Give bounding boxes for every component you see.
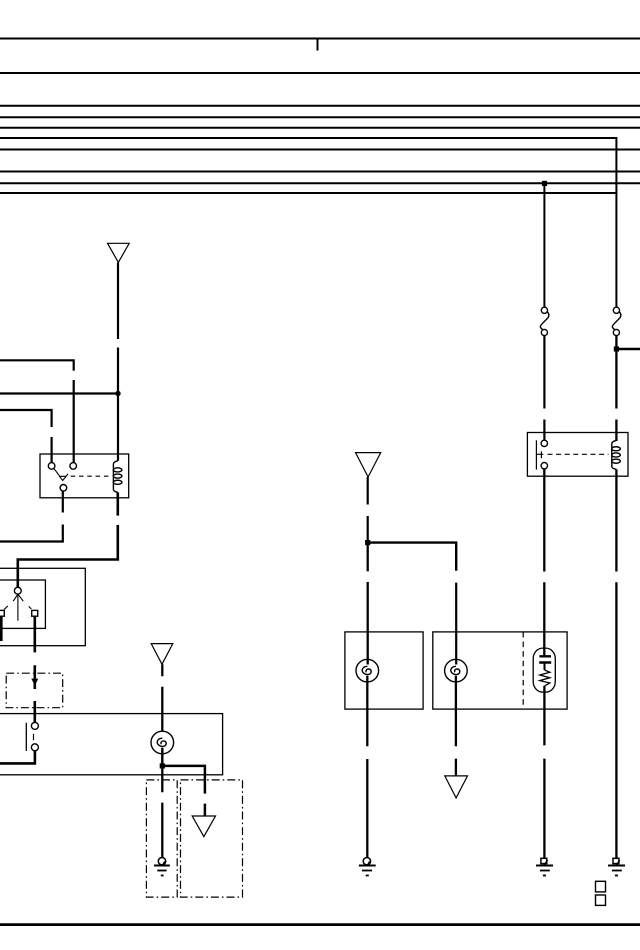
connector dashed box <box>6 673 63 708</box>
dash-dot box right <box>181 780 243 897</box>
switch S1 left contact <box>0 610 4 616</box>
connector triangle T4 <box>445 776 468 798</box>
wire junction down to bulb L2 <box>367 545 369 665</box>
wire T2 down to bulb L1 <box>161 664 163 731</box>
junction node below bulb L1 <box>160 763 165 768</box>
ground G3 <box>536 858 553 875</box>
wire feed C from left edge <box>0 410 52 463</box>
wire from bus 9 junction down to fuse F1 <box>543 183 545 307</box>
switch S2 terminal bottom <box>31 744 38 751</box>
relay U2 terminal bottom <box>541 463 547 469</box>
wire bus 2 <box>0 72 640 74</box>
wire fuse F1 to relay box <box>543 336 545 441</box>
wire junction to connector T5 <box>162 766 205 816</box>
wire bus 4 <box>0 116 640 118</box>
wire bus 1 <box>0 38 640 40</box>
heater element resistor zigzag <box>540 670 550 686</box>
wire bus 3 <box>0 105 640 107</box>
wire bulb L2 to ground <box>366 676 368 858</box>
connector arrow on wire <box>31 679 38 686</box>
wire bulb L3 down to connector T4 <box>455 676 457 776</box>
ground G1 <box>154 858 170 876</box>
wire S2 bottom out left <box>0 751 35 764</box>
dashed separator in box L3 <box>522 632 524 709</box>
lamp box L3 with element <box>433 632 567 709</box>
switch S1 terminal <box>14 587 21 594</box>
wire relay U2 coil down <box>615 469 617 857</box>
switch assembly inner box <box>0 580 45 628</box>
page reference square 2 <box>596 895 606 905</box>
switch S2 bar <box>25 723 27 751</box>
relay U2 coil <box>612 440 621 469</box>
relay U1 coil <box>113 461 122 493</box>
wire bus 7 <box>0 149 640 151</box>
wire T3 down to junction <box>367 477 369 543</box>
wire bus 9 <box>0 182 640 184</box>
switch S2 dash between terminals <box>33 734 35 740</box>
wire bus 5 <box>0 127 640 129</box>
wire branch right lower <box>455 583 457 665</box>
wire bulb L1 to junction <box>161 748 163 766</box>
relay U1 switch arm <box>54 468 68 480</box>
wire relay U1 common down and left <box>0 491 63 542</box>
wire feed A from left edge <box>0 360 74 462</box>
bulb L1 <box>151 731 174 754</box>
fuse F1 <box>540 307 549 335</box>
wire T1 down to relay coil <box>117 262 119 460</box>
wire stub from left contact <box>0 616 3 641</box>
relay U1 terminal 2 <box>70 463 77 470</box>
relay U2 contact bar <box>536 440 543 469</box>
fuse F2 <box>612 307 621 335</box>
junction node middle <box>365 540 370 545</box>
relay U2 terminal top <box>541 440 547 446</box>
connector triangle T1 (top left) <box>108 243 130 262</box>
lamp box L2 <box>345 632 423 709</box>
heater element stem <box>544 663 546 671</box>
connector triangle T5 <box>192 816 215 837</box>
junction node on coil wire <box>115 391 120 396</box>
switch S2 terminal top <box>31 722 38 729</box>
wire bus 10 <box>0 192 617 194</box>
relay U1 actuation dashed line <box>71 475 112 477</box>
wire relay U1 coil to switch S1 <box>18 492 118 587</box>
junction node on F2 wire <box>614 346 619 351</box>
ground G4 <box>608 858 625 875</box>
relay U1 box <box>40 454 129 498</box>
wire bus 6 with corner down to fuse F2 <box>0 138 616 307</box>
switch S1 pole and arms <box>13 594 23 621</box>
heater element plates <box>539 656 551 662</box>
dash-dot box left <box>146 780 177 897</box>
heater element capsule <box>533 648 555 692</box>
relay U2 box <box>527 433 628 477</box>
page reference square 1 <box>596 881 606 892</box>
switch S1 right contact <box>32 610 38 616</box>
node tick on bus 1 <box>317 39 319 51</box>
junction node on bus 9 <box>542 181 547 186</box>
ground G2 <box>359 858 376 876</box>
wire fuse F2 to relay box <box>615 336 617 441</box>
bulb L3 <box>445 659 468 682</box>
wire bus 8 <box>0 171 640 173</box>
connector triangle T2 (to lamp) <box>151 644 173 665</box>
wire from junction to right edge <box>616 348 640 350</box>
wire heater element to ground <box>543 686 545 858</box>
wire junction down to ground G1 <box>161 766 163 858</box>
switch assembly outer box <box>0 568 85 645</box>
bottom border line <box>0 923 640 926</box>
wire S1 right contact down <box>33 616 36 722</box>
switch S1 dashed throws <box>4 606 31 610</box>
relay U2 actuation dashed line <box>548 453 609 455</box>
relay U1 common terminal <box>60 485 67 492</box>
wire feed B from left edge to junction <box>0 392 118 394</box>
wire junction branch right <box>368 543 457 571</box>
wire relay U2 contact down <box>543 469 545 656</box>
bulb L2 <box>356 659 379 682</box>
connector triangle T3 (middle feed) <box>356 453 381 477</box>
lamp unit long box <box>0 714 223 775</box>
relay U1 terminal 1 <box>48 463 55 470</box>
